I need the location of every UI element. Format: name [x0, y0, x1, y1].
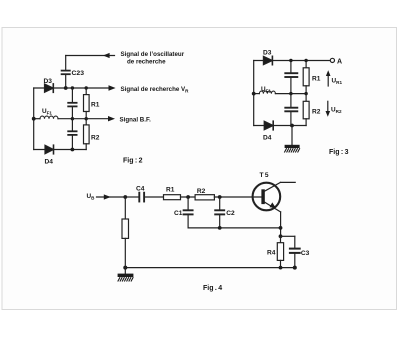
node dot (emitter/lower wire)	[279, 226, 283, 230]
arrow into circuit (points left)	[103, 53, 110, 58]
node dot (C3 branch)	[279, 234, 283, 238]
node dot (ground node Fig3)	[290, 124, 294, 128]
wire: Fig3 bottom wire y=125.5	[254, 125, 306, 127]
node dot (R1 top Fig3)	[304, 59, 307, 62]
resistor R2 (Fig2)	[84, 119, 90, 150]
capacitor (lower Fig3)	[285, 94, 297, 126]
svg-text:D3: D3	[263, 49, 272, 56]
node dot (R divider mid)	[85, 117, 88, 120]
capacitor (upper, Fig2 x=72.4)	[68, 88, 76, 119]
resistor R1 (Fig4, horizontal)	[164, 195, 181, 200]
wire: Fig3 middle wire y=93.6	[254, 93, 306, 95]
arrow UB (points right)	[104, 194, 111, 199]
wire: collector lead	[280, 181, 295, 183]
svg-text:Signal de recherche VR: Signal de recherche VR	[121, 86, 190, 94]
arrow UR2 (down)	[326, 101, 331, 116]
node dot (R4 bottom)	[279, 266, 283, 270]
svg-text:R1: R1	[166, 186, 175, 193]
arrow: Signal de recherche (points right)	[109, 85, 116, 90]
wire: Fig2 middle wire y=118.7	[34, 118, 109, 120]
node dot (left rail mid)	[32, 117, 36, 121]
svg-text:T 5: T 5	[260, 172, 269, 179]
node dot (C2 bottom)	[218, 226, 222, 230]
capacitor C23	[62, 56, 70, 89]
svg-text:A: A	[337, 58, 342, 65]
resistor R2 (Fig4, horizontal)	[195, 195, 214, 200]
svg-text:D4: D4	[263, 134, 272, 141]
resistor R2 (Fig3)	[303, 94, 309, 126]
svg-text:Fig : 2: Fig : 2	[123, 158, 143, 165]
wire: emitter vertical	[280, 212, 282, 236]
terminal A circle	[330, 58, 334, 62]
node dot (left rail mid Fig3)	[252, 92, 256, 96]
node dot (cap branch top)	[71, 86, 74, 89]
svg-text:C3: C3	[301, 250, 310, 257]
resistor (input shunt, unlabeled)	[122, 197, 129, 268]
svg-text:C23: C23	[72, 70, 85, 77]
wire: C4 to R1	[145, 196, 164, 198]
node dot (cap mid Fig3)	[289, 92, 292, 95]
diode D4 (Fig3)	[264, 121, 273, 130]
node dot (C2 node)	[218, 195, 222, 199]
diode D3 (Fig2)	[45, 84, 54, 92]
capacitor C1	[184, 197, 193, 228]
capacitor C3	[290, 249, 300, 268]
svg-text:R2: R2	[91, 135, 100, 142]
svg-text:C4: C4	[136, 185, 145, 192]
svg-text:R2: R2	[312, 108, 321, 115]
wire: R1 to node	[181, 196, 196, 198]
svg-text:Fig . 4: Fig . 4	[203, 285, 222, 292]
node dot (cap bottom Fig2)	[71, 148, 75, 152]
svg-text:Fig : 3: Fig : 3	[329, 149, 349, 156]
wire: C1/C2 bottom wire to emitter	[188, 227, 280, 229]
node dot (R divider mid Fig3)	[304, 92, 307, 95]
resistor R4	[277, 236, 283, 267]
ground (Fig3)	[285, 126, 300, 153]
inductor UF1 coil (Fig3)	[259, 91, 275, 94]
svg-text:Signal de l’oscillateur: Signal de l’oscillateur	[121, 51, 185, 58]
wire: Fig2 top node wire y=88	[34, 87, 109, 89]
diode D4 (Fig2)	[45, 145, 54, 154]
svg-text:C1: C1	[174, 210, 183, 217]
svg-text:R4: R4	[267, 250, 276, 257]
node dot (R1 top)	[85, 86, 88, 89]
wire: Fig4 bottom wire	[125, 267, 295, 269]
svg-text:R1: R1	[91, 102, 100, 109]
node dot (C23 junction)	[64, 86, 68, 90]
node dot (C3 bottom)	[293, 266, 297, 270]
svg-text:C2: C2	[226, 210, 235, 217]
wire: Fig2 bottom wire y=149.5	[34, 149, 86, 151]
wire: left vertical rail Fig3	[253, 61, 255, 126]
transistor T5	[253, 182, 281, 212]
arrow UR1 (up)	[326, 70, 331, 86]
capacitor C4	[139, 193, 144, 202]
wire: input line with arrow	[97, 196, 126, 198]
node dot (cap top Fig3)	[289, 59, 292, 62]
svg-text:Signal B.F.: Signal B.F.	[120, 116, 152, 123]
capacitor (upper Fig3)	[285, 61, 297, 94]
node dot (cap mid)	[71, 117, 74, 120]
inductor UF1 coil (Fig2)	[40, 116, 58, 119]
capacitor (lower, Fig2 x=72.4)	[68, 119, 76, 150]
svg-text:R1: R1	[312, 75, 321, 82]
wire: R2 to base	[214, 196, 261, 198]
ground (Fig4)	[118, 268, 134, 281]
svg-text:de recherche: de recherche	[127, 59, 166, 66]
svg-text:D3: D3	[44, 78, 53, 85]
wire: left vertical rail Fig2	[33, 88, 35, 150]
wire: to C4	[125, 196, 138, 198]
wire: Fig2 oscillator line	[66, 55, 115, 57]
capacitor C2	[215, 197, 224, 228]
svg-text:R2: R2	[197, 188, 206, 195]
node dot (input junction)	[123, 195, 127, 199]
node dot (C1 node)	[186, 195, 190, 199]
arrow: Signal B.F. (points right)	[108, 116, 115, 121]
resistor R1 (Fig2)	[84, 88, 90, 119]
wire: branch to C3	[281, 236, 295, 247]
svg-text:D4: D4	[45, 159, 54, 166]
wire: Fig3 top wire y=60.5	[254, 60, 331, 62]
node dot (ground junction Fig4)	[123, 266, 127, 270]
resistor R1 (Fig3)	[303, 61, 309, 94]
diode D3 (Fig3)	[263, 56, 272, 64]
